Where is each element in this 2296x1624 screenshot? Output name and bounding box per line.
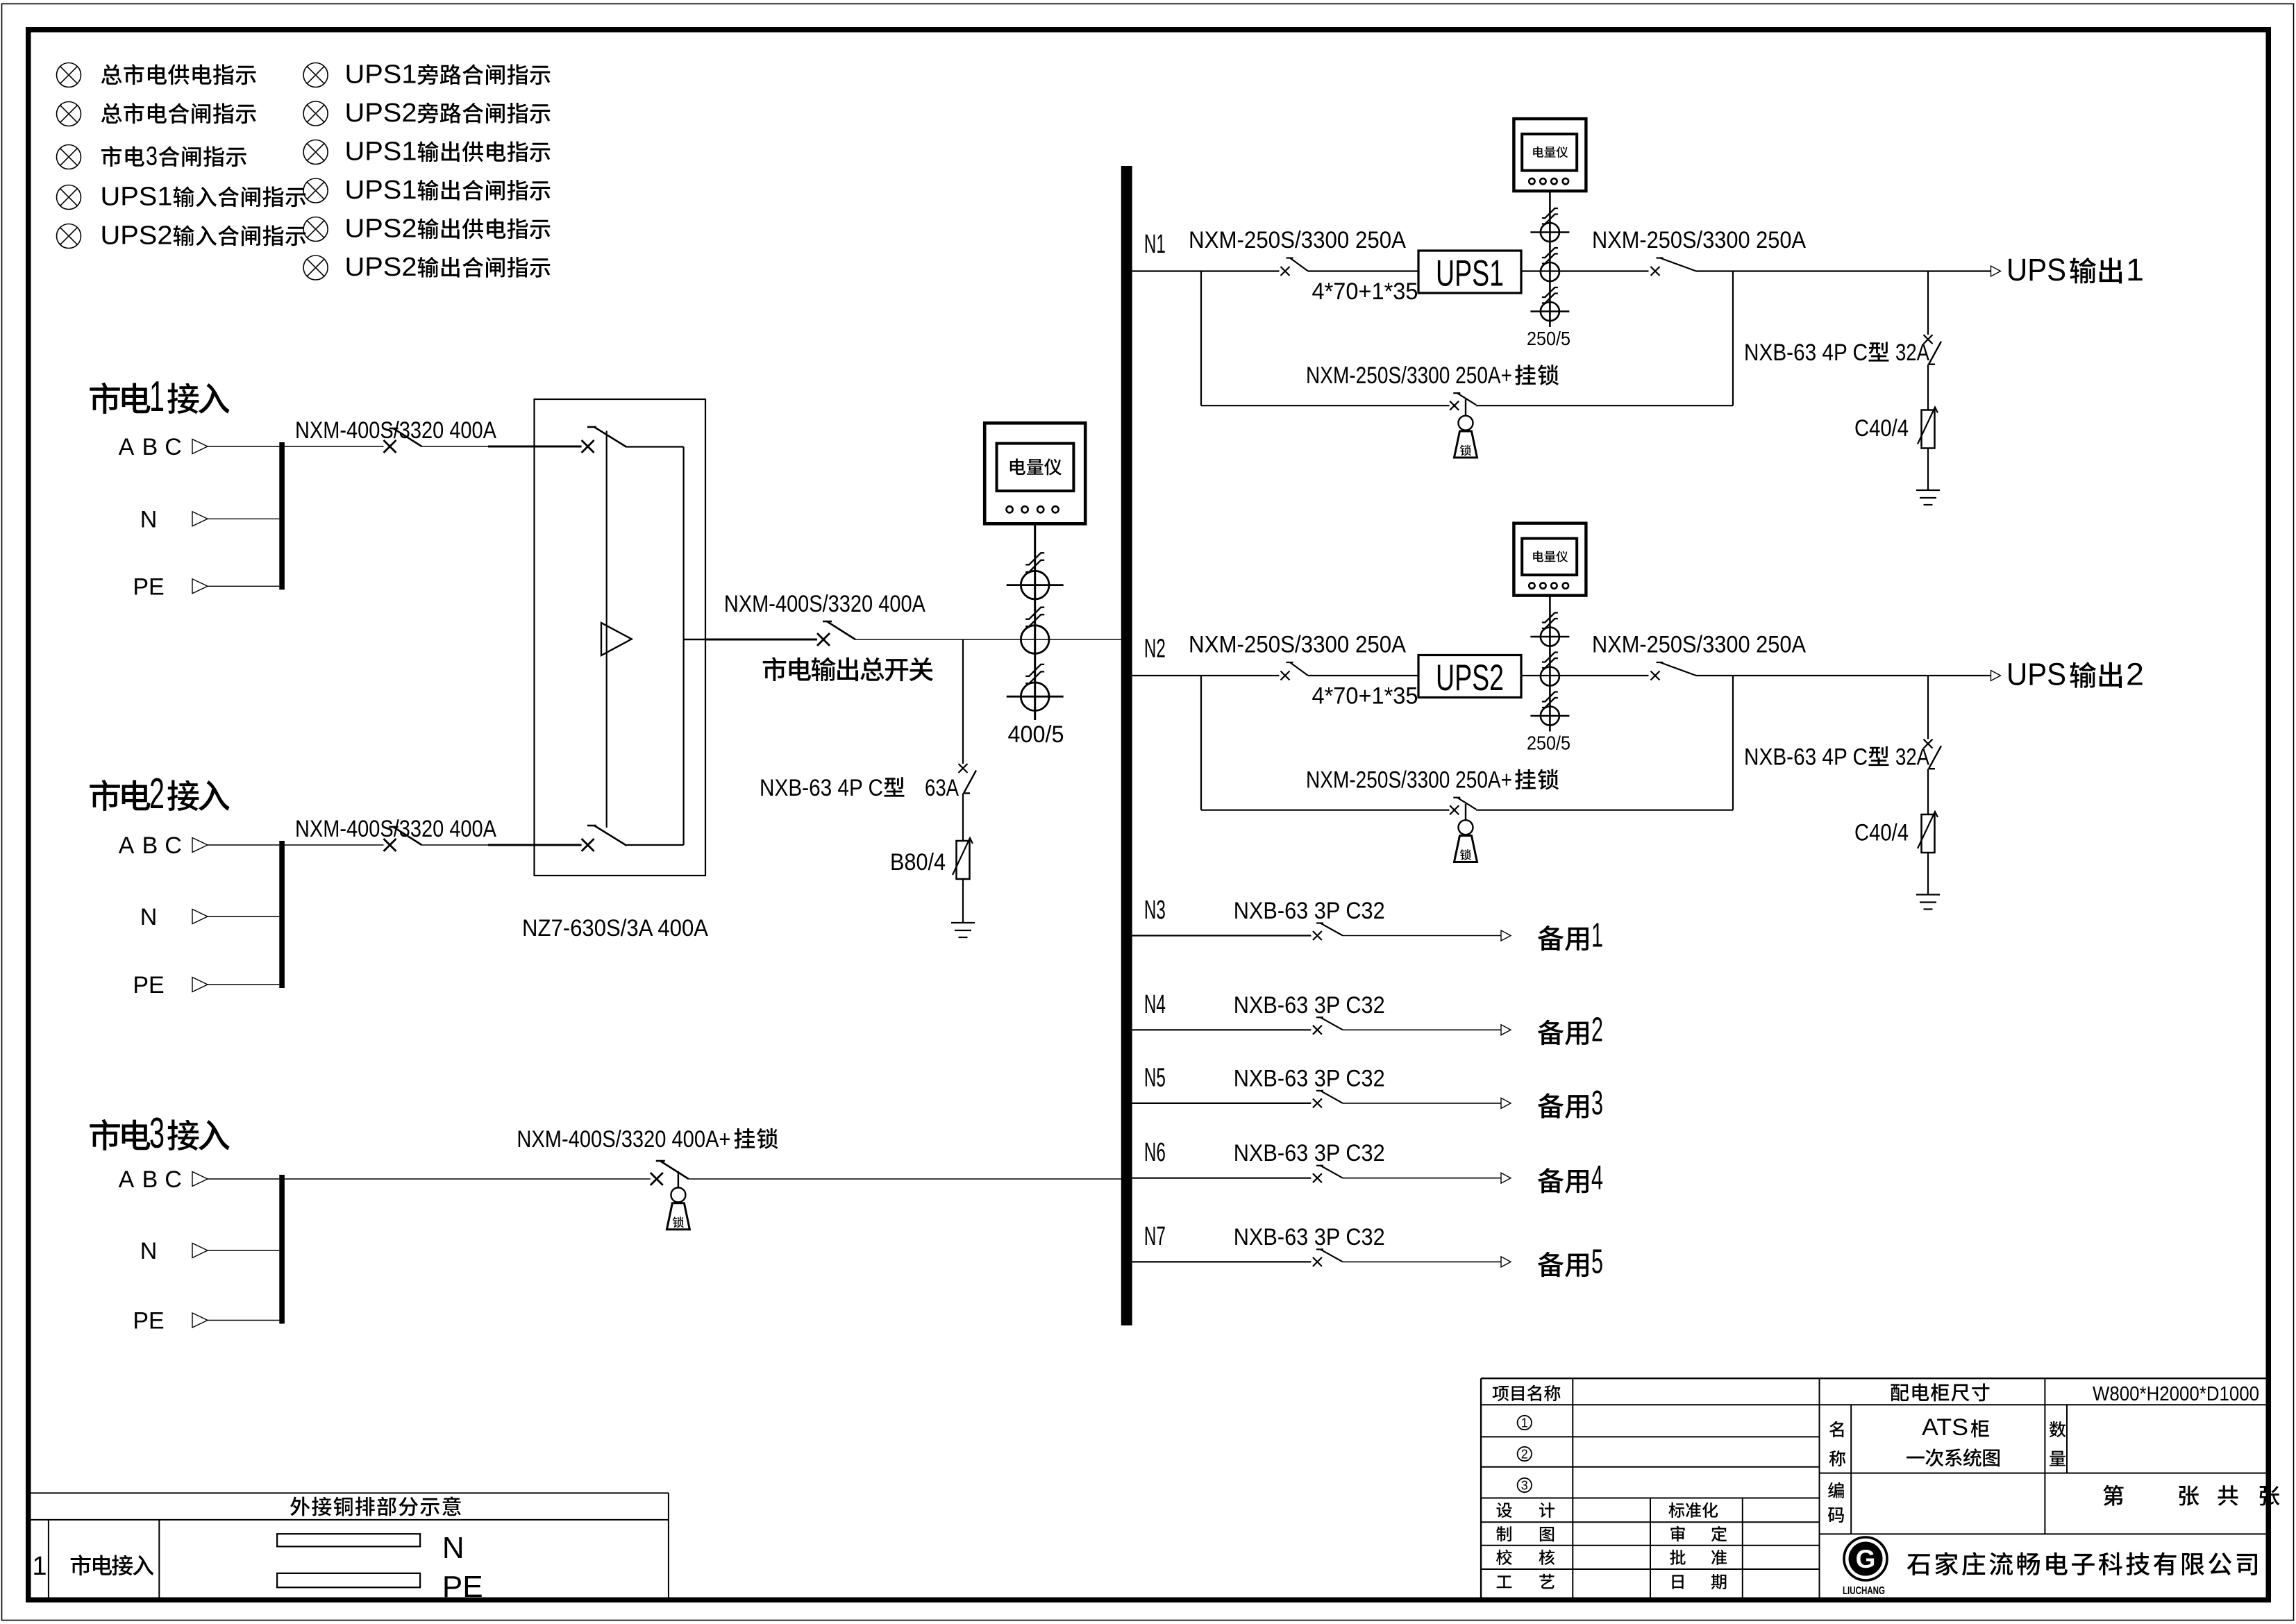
- svg-text:N: N: [140, 506, 158, 533]
- indicator lamp symbol (left column): [57, 185, 81, 210]
- breaker N5 NXB-63 3P C32: [1313, 1098, 1322, 1107]
- ATS changeover switch NZ7-630S/3A box: [535, 399, 706, 876]
- busbar sample N: [277, 1534, 420, 1546]
- label 项目名称: [1493, 1386, 1509, 1401]
- wire N5 from busbar: [1132, 1103, 1312, 1104]
- output arrow UPS输出2: [1991, 671, 2001, 681]
- svg-text:UPS1: UPS1: [345, 60, 417, 90]
- wire N to busbar: [208, 1250, 279, 1251]
- terminal arrow N: [192, 1244, 208, 1258]
- breaker QF1 NXM-400S/3320 (mains1 input): [285, 446, 384, 447]
- main distribution busbar: [1121, 166, 1132, 1325]
- padlock symbol (bypass N1): [1465, 399, 1466, 416]
- svg-text:4*70+1*35: 4*70+1*35: [1312, 683, 1418, 710]
- breaker QF3 市电输出总开关 NXM-400S/3320: [705, 639, 817, 641]
- svg-text:UPS2: UPS2: [101, 221, 173, 251]
- label 设计: [1496, 1502, 1511, 1518]
- breaker QF4 NXB-63 4P C型 63A (SPD): [959, 764, 968, 773]
- svg-text:1: 1: [1521, 1416, 1528, 1430]
- wire N6 from busbar: [1132, 1178, 1312, 1179]
- wire QF3 to main busbar: [855, 639, 1121, 640]
- svg-text:LIUCHANG: LIUCHANG: [1843, 1585, 1885, 1597]
- svg-text:C40/4: C40/4: [1854, 415, 1909, 442]
- legend label 总市电合闸指示: [101, 103, 122, 123]
- wire ABC to busbar: [208, 1178, 279, 1180]
- terminal arrow PE: [192, 978, 208, 992]
- wire N1 from busbar: [1132, 270, 1280, 271]
- breaker N3 NXB-63 3P C32: [1313, 931, 1322, 940]
- breaker N1 input NXM-250S/3300: [1281, 267, 1290, 276]
- svg-text:C40/4: C40/4: [1854, 820, 1909, 846]
- wire output breaker to arrow: [1696, 270, 1991, 271]
- indicator lamp symbol (right column): [303, 101, 328, 126]
- terminal arrow A B C: [192, 1172, 208, 1187]
- padlock symbol (bypass N2): [1465, 804, 1466, 821]
- svg-text:NXB-63 3P C32: NXB-63 3P C32: [1234, 992, 1385, 1019]
- breaker NXB-63 4P C型 32A (UPS2 SPD): [1924, 739, 1933, 748]
- svg-text:C: C: [165, 434, 182, 460]
- svg-text:250/5: 250/5: [1527, 328, 1570, 349]
- svg-text:UPS1: UPS1: [101, 183, 173, 212]
- label 名称: [1829, 1421, 1843, 1437]
- svg-text:NXB-63 4P C: NXB-63 4P C: [1744, 744, 1868, 771]
- breaker N1 output NXM-250S/3300: [1651, 267, 1660, 276]
- svg-text:N: N: [442, 1531, 464, 1565]
- wire PE to busbar: [208, 1320, 279, 1321]
- SPD junction drop: [1927, 271, 1929, 335]
- svg-text:G: G: [1856, 1545, 1876, 1573]
- wire to output arrow: [1343, 935, 1501, 937]
- CT middle (UPS2): [1541, 667, 1559, 686]
- ATS internal top switch (mains1): [535, 446, 582, 448]
- breaker NXB-63 4P C型 32A (UPS1 SPD): [1924, 335, 1933, 344]
- svg-text:3: 3: [1591, 1085, 1603, 1122]
- wire to varistor: [1927, 365, 1929, 410]
- label 数量: [2050, 1421, 2066, 1437]
- svg-text:W800*H2000*D1000: W800*H2000*D1000: [2093, 1383, 2259, 1405]
- svg-text:1: 1: [149, 373, 165, 421]
- CT upper (UPS2): [1541, 628, 1559, 646]
- circled number 1: [1518, 1416, 1532, 1430]
- load label 备用2: [1538, 1020, 1564, 1045]
- label 校核: [1496, 1550, 1512, 1565]
- svg-text:2: 2: [1591, 1011, 1603, 1048]
- bypass breaker N2: [1450, 805, 1459, 814]
- wire to varistor: [962, 794, 964, 842]
- circled number 2: [1518, 1447, 1532, 1461]
- wire to ground: [1927, 853, 1929, 895]
- ATS output wires: [627, 446, 684, 447]
- CT 3 (phase C): [1021, 683, 1049, 711]
- ATS internal bottom switch (mains2): [535, 844, 582, 846]
- input busbar (mains 3): [279, 1175, 285, 1324]
- wire output breaker to arrow: [1696, 675, 1991, 676]
- svg-text:N5: N5: [1144, 1063, 1166, 1092]
- svg-text:5: 5: [1591, 1243, 1603, 1280]
- svg-text:32A: 32A: [1895, 744, 1929, 771]
- ATS linkage bar: [606, 431, 607, 828]
- wire PE to busbar: [208, 984, 279, 985]
- svg-text:PE: PE: [442, 1570, 483, 1604]
- label 制图: [1496, 1526, 1511, 1541]
- svg-text:N6: N6: [1144, 1138, 1166, 1167]
- label 标准化: [1668, 1502, 1684, 1518]
- svg-text:NXB-63 4P C: NXB-63 4P C: [760, 775, 883, 801]
- svg-text:B: B: [142, 1166, 158, 1193]
- bottom-left table 外接铜排部分示意: [31, 1492, 669, 1493]
- output arrow UPS输出1: [1991, 266, 2001, 276]
- wire N4 from busbar: [1132, 1029, 1312, 1030]
- terminal arrow PE: [192, 579, 208, 594]
- wire mains3 to busbar: [285, 1178, 651, 1180]
- surge arrester C40/4 (varistor): [1922, 410, 1935, 449]
- svg-text:PE: PE: [133, 574, 164, 600]
- breaker QF5 NXM-400S/3320 400A+挂锁 (mains3): [651, 1173, 663, 1185]
- wire N2 from busbar: [1132, 675, 1280, 676]
- terminal arrow A B C: [192, 440, 208, 454]
- wire junction to SPD branch: [962, 639, 964, 764]
- indicator lamp symbol (left column): [57, 145, 81, 169]
- breaker N2 output NXM-250S/3300: [1651, 671, 1660, 680]
- svg-text:3: 3: [149, 1110, 165, 1157]
- svg-text:2: 2: [149, 770, 165, 818]
- wire mains1 to ATS: [422, 446, 489, 447]
- svg-text:2: 2: [2126, 657, 2144, 692]
- svg-text:NXM-400S/3320 400A: NXM-400S/3320 400A: [295, 816, 496, 842]
- svg-text:32A: 32A: [1895, 340, 1929, 366]
- ground symbol (UPS1 SPD): [1916, 489, 1940, 491]
- value 一次系统图: [1907, 1457, 1925, 1459]
- svg-text:63A: 63A: [925, 775, 959, 801]
- svg-text:PE: PE: [133, 972, 164, 998]
- table header 外接铜排部分示意: [290, 1497, 310, 1516]
- svg-text:1: 1: [1591, 917, 1603, 955]
- svg-text:N3: N3: [1144, 896, 1166, 925]
- svg-text:N2: N2: [1144, 635, 1166, 664]
- CT slashes: [1542, 613, 1558, 623]
- svg-text:1: 1: [2126, 252, 2144, 287]
- breaker N6 NXB-63 3P C32: [1313, 1173, 1322, 1182]
- wire UPS1 to output breaker: [1521, 270, 1649, 271]
- bypass right rise wire: [1732, 271, 1734, 406]
- svg-text:N: N: [140, 904, 158, 930]
- indicator lamp symbol (right column): [303, 63, 328, 87]
- svg-text:B: B: [142, 434, 158, 460]
- indicator lamp symbol (left column): [57, 63, 81, 87]
- svg-text:ATS: ATS: [1922, 1414, 1968, 1441]
- svg-text:NXM-400S/3320 400A: NXM-400S/3320 400A: [724, 591, 925, 617]
- wire UPS2 to output breaker: [1521, 675, 1649, 676]
- label 第 张 共 张: [2103, 1485, 2123, 1506]
- indicator lamp symbol (right column): [303, 217, 328, 242]
- label 批准: [1670, 1550, 1685, 1565]
- breaker N4 NXB-63 3P C32: [1313, 1026, 1322, 1035]
- terminal arrow N: [192, 512, 208, 526]
- svg-text:UPS2: UPS2: [345, 215, 417, 244]
- svg-text:A: A: [119, 832, 135, 859]
- svg-text:UPS2: UPS2: [345, 99, 417, 128]
- svg-text:4*70+1*35: 4*70+1*35: [1312, 278, 1418, 305]
- wire N3 from busbar: [1132, 935, 1312, 936]
- meter wire through CTs: [1549, 191, 1551, 327]
- svg-text:N1: N1: [1144, 230, 1166, 259]
- wire N7 from busbar: [1132, 1261, 1312, 1262]
- padlock symbol (mains3 breaker): [678, 1171, 679, 1188]
- wire to output arrow: [1343, 1178, 1501, 1179]
- label 编码: [1828, 1482, 1844, 1498]
- svg-text:B: B: [142, 832, 158, 859]
- breaker N2 input NXM-250S/3300: [1281, 671, 1290, 680]
- SPD junction drop: [1927, 676, 1929, 739]
- bypass left drop wire: [1200, 271, 1202, 406]
- meter wire through CTs: [1549, 596, 1551, 732]
- terminal arrow N: [192, 910, 208, 924]
- wire ABC to busbar: [208, 446, 279, 447]
- indicator lamp symbol (right column): [303, 178, 328, 203]
- load label 备用3: [1538, 1093, 1564, 1118]
- surge arrester C40/4 (varistor): [1922, 814, 1935, 853]
- svg-text:UPS2: UPS2: [345, 253, 417, 282]
- CT lower (UPS1): [1541, 302, 1559, 321]
- company logo LIUCHANG: [1844, 1537, 1887, 1580]
- svg-text:A: A: [119, 1166, 135, 1193]
- svg-text:NXB-63 3P C32: NXB-63 3P C32: [1234, 898, 1385, 924]
- terminal arrow A B C: [192, 838, 208, 853]
- annotation 市电2接入 (mains 2 title): [90, 780, 120, 811]
- load label 备用5: [1538, 1252, 1564, 1277]
- wire to UPS1: [1308, 270, 1418, 271]
- wire mains2 to ATS: [422, 844, 489, 846]
- input busbar (mains 1): [279, 442, 285, 589]
- breaker N7 NXB-63 3P C32: [1313, 1257, 1322, 1266]
- power meter 电量仪 (main): [984, 423, 1085, 524]
- CT slashes: [1542, 208, 1558, 218]
- svg-text:NXM-250S/3300 250A: NXM-250S/3300 250A: [1189, 227, 1406, 253]
- svg-text:NXM-400S/3320 400A+: NXM-400S/3320 400A+: [517, 1126, 730, 1153]
- circled number 3: [1518, 1478, 1532, 1492]
- bypass right rise wire: [1732, 676, 1734, 810]
- bypass wire (NXM-250S/3300 250A+挂锁): [1201, 810, 1450, 811]
- svg-text:UPS2: UPS2: [1436, 658, 1504, 698]
- legend label 总市电供电指示: [101, 64, 122, 84]
- svg-text:A: A: [119, 434, 135, 460]
- UPS1 box: [1418, 251, 1521, 293]
- power meter 电量仪 (UPS1): [1514, 119, 1586, 191]
- power meter 电量仪 (UPS2): [1514, 524, 1586, 596]
- wire to ground: [962, 879, 964, 923]
- svg-text:NXB-63 3P C32: NXB-63 3P C32: [1234, 1224, 1385, 1250]
- svg-text:NXM-250S/3300 250A: NXM-250S/3300 250A: [1592, 632, 1806, 658]
- input busbar (mains 2): [279, 841, 285, 988]
- title block horizontal lines: [1481, 1404, 2268, 1405]
- load label 备用1: [1538, 926, 1564, 951]
- wire QF5 to busbar: [689, 1178, 1121, 1180]
- UPS2 box: [1418, 655, 1521, 698]
- annotation 市电3接入 (mains 3 title): [90, 1119, 120, 1150]
- wire N to busbar: [208, 518, 279, 519]
- CT slashes: [1025, 553, 1044, 564]
- svg-text:3: 3: [1521, 1479, 1528, 1493]
- svg-text:4: 4: [1591, 1160, 1603, 1197]
- wire ABC to busbar: [208, 844, 279, 846]
- indicator lamp symbol (left column): [57, 224, 81, 249]
- label 工艺: [1497, 1575, 1512, 1588]
- surge arrester B80/4 (varistor): [957, 841, 970, 879]
- svg-text:2: 2: [1521, 1448, 1528, 1462]
- svg-text:400/5: 400/5: [1008, 721, 1064, 748]
- bypass left drop wire: [1200, 676, 1202, 810]
- svg-text:N4: N4: [1144, 990, 1166, 1019]
- row label 市电接入: [71, 1555, 91, 1575]
- breaker QF2 NXM-400S/3320 (mains2 input): [285, 844, 384, 846]
- svg-text:UPS1: UPS1: [1436, 253, 1504, 294]
- meter wire down through CTs: [1034, 524, 1036, 720]
- indicator lamp symbol (right column): [303, 256, 328, 280]
- CT 2 (phase B) on main wire: [1021, 626, 1049, 654]
- label 日期: [1673, 1575, 1684, 1589]
- CT upper (UPS1): [1541, 223, 1559, 242]
- wire PE to busbar: [208, 585, 279, 587]
- svg-text:NXB-63 4P C: NXB-63 4P C: [1744, 340, 1868, 366]
- svg-text:3: 3: [146, 142, 158, 171]
- load label 备用4: [1538, 1168, 1564, 1193]
- busbar sample PE: [277, 1573, 420, 1587]
- svg-text:C: C: [165, 1166, 182, 1193]
- CT 1 (phase A): [1021, 571, 1049, 599]
- title block frame: [1481, 1378, 2268, 1379]
- svg-text:NXM-250S/3300 250A: NXM-250S/3300 250A: [1189, 632, 1406, 658]
- wire to output arrow: [1343, 1103, 1501, 1104]
- svg-text:NXM-400S/3320 400A: NXM-400S/3320 400A: [295, 417, 496, 444]
- ground symbol (SPD main): [951, 922, 975, 923]
- indicator lamp symbol (left column): [57, 102, 81, 126]
- wire to ground: [1927, 449, 1929, 491]
- svg-text:N7: N7: [1144, 1222, 1166, 1251]
- bypass breaker N1: [1450, 401, 1459, 410]
- wire to varistor: [1927, 769, 1929, 814]
- legend label 市电3合闸指示: [101, 146, 121, 167]
- annotation 市电输出总开关: [763, 657, 787, 681]
- svg-text:NXB-63 3P C32: NXB-63 3P C32: [1234, 1065, 1385, 1091]
- label 审定: [1670, 1526, 1684, 1541]
- company name 石家庄流畅电子科技有限公司: [1907, 1554, 1930, 1575]
- svg-text:N: N: [140, 1238, 158, 1264]
- wire to output arrow: [1343, 1029, 1501, 1030]
- ground symbol (UPS2 SPD): [1916, 894, 1940, 895]
- wire N to busbar: [208, 916, 279, 917]
- inner border frame: [26, 27, 2271, 33]
- svg-text:NXM-250S/3300 250A+: NXM-250S/3300 250A+: [1306, 767, 1512, 794]
- svg-text:NZ7-630S/3A 400A: NZ7-630S/3A 400A: [522, 915, 708, 941]
- title block vertical lines: [1572, 1378, 1573, 1597]
- svg-text:UPS: UPS: [2006, 252, 2066, 287]
- CT lower (UPS2): [1541, 707, 1559, 726]
- svg-text:NXB-63 3P C32: NXB-63 3P C32: [1234, 1140, 1385, 1166]
- wire to UPS2: [1308, 675, 1418, 676]
- svg-text:NXM-250S/3300 250A+: NXM-250S/3300 250A+: [1306, 362, 1512, 389]
- svg-text:C: C: [165, 832, 182, 859]
- svg-text:UPS: UPS: [2006, 657, 2066, 692]
- indicator lamp symbol (right column): [303, 140, 328, 165]
- annotation 市电1接入 (mains 1 title): [90, 383, 120, 414]
- terminal arrow PE: [192, 1313, 208, 1328]
- svg-text:NXM-250S/3300 250A: NXM-250S/3300 250A: [1592, 227, 1806, 253]
- CT middle (UPS1): [1541, 262, 1559, 281]
- svg-text:B80/4: B80/4: [890, 849, 946, 876]
- wire to output arrow: [1343, 1261, 1501, 1262]
- svg-text:250/5: 250/5: [1527, 733, 1570, 754]
- svg-text:UPS1: UPS1: [345, 176, 417, 205]
- bypass wire (NXM-250S/3300 250A+挂锁): [1201, 405, 1450, 406]
- svg-text:1: 1: [32, 1552, 47, 1581]
- svg-text:PE: PE: [133, 1308, 164, 1334]
- label 配电柜尺寸: [1891, 1384, 1909, 1401]
- svg-text:UPS1: UPS1: [345, 137, 417, 167]
- ATS actuator triangle: [601, 623, 632, 655]
